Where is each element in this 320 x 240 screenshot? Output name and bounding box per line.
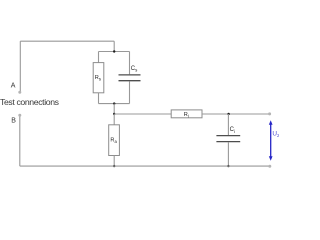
terminal B: [18, 114, 21, 117]
wire: Cs top lead: [129, 52, 131, 75]
capacitor Ci bottom plate: [216, 141, 240, 143]
wire: block bottom to middle node: [113, 104, 115, 114]
wire: middle horizontal to Ri: [114, 113, 171, 115]
junction: Ra bottom node: [113, 165, 115, 167]
arrow U2 shaft: [270, 124, 272, 159]
terminal: output top right: [268, 112, 271, 115]
wire: Ra top lead: [113, 114, 115, 125]
resistor Ri: [171, 110, 202, 118]
wire: drop from top wire into block top rail: [113, 41, 115, 51]
junction: block top node: [113, 50, 115, 52]
capacitor Cs top plate: [119, 74, 141, 76]
wire: Ci top lead: [227, 114, 229, 135]
junction: Ci top node: [227, 113, 229, 115]
svg-text:Cs: Cs: [131, 66, 138, 73]
wire: middle horizontal Ri to right terminal: [202, 113, 270, 115]
wire: B terminal vertical: [19, 115, 21, 166]
wire: parallel block top rail: [99, 51, 130, 53]
svg-text:A: A: [11, 83, 16, 90]
wire: top horizontal from A to parallel block: [20, 40, 114, 42]
svg-text:Test connections: Test connections: [0, 97, 60, 107]
svg-text:Ci: Ci: [230, 127, 235, 134]
junction: block bottom node: [113, 102, 115, 104]
wire: bottom horizontal rail: [20, 165, 270, 167]
resistor Ra: [109, 125, 120, 156]
arrow U2 top head: [269, 120, 273, 125]
arrow U2 bottom head: [269, 156, 273, 161]
svg-text:Rs: Rs: [95, 75, 101, 81]
resistor Rs: [93, 63, 104, 93]
wire: Ra bottom lead: [113, 156, 115, 167]
svg-text:Ra: Ra: [110, 138, 117, 144]
wire: A terminal vertical riser: [19, 41, 21, 92]
capacitor Ci top plate: [216, 135, 240, 137]
terminal A: [18, 91, 21, 94]
junction: Ci bottom node: [227, 165, 229, 167]
junction: middle node: [113, 113, 115, 115]
wire: Cs bottom lead: [129, 81, 131, 103]
wire: Rs bottom lead: [98, 93, 100, 104]
svg-text:Ri: Ri: [184, 112, 189, 118]
wire: Rs top lead: [98, 52, 100, 63]
terminal: output bottom right: [268, 165, 271, 168]
svg-text:B: B: [11, 117, 16, 124]
wire: Ci bottom lead: [227, 142, 229, 166]
capacitor Cs bottom plate: [119, 80, 141, 82]
wire: parallel block bottom rail: [99, 103, 130, 105]
